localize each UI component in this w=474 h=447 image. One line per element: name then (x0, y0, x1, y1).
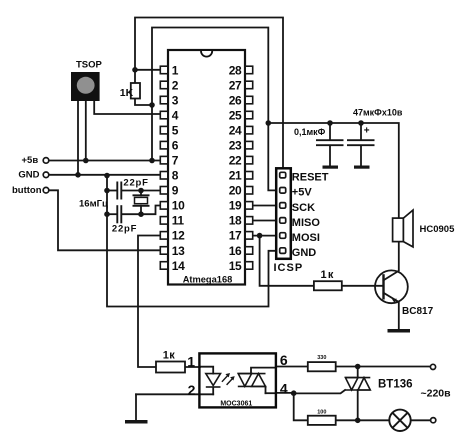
svg-text:17: 17 (229, 229, 242, 243)
svg-text:0,1мкФ: 0,1мкФ (294, 127, 326, 137)
svg-text:20: 20 (229, 184, 242, 198)
svg-text:6: 6 (280, 352, 288, 368)
svg-text:16мГц: 16мГц (79, 199, 108, 210)
svg-text:100: 100 (317, 410, 326, 416)
svg-text:BC817: BC817 (402, 306, 434, 317)
svg-text:+5V: +5V (292, 187, 313, 199)
svg-text:1K: 1K (120, 87, 134, 99)
svg-text:4: 4 (280, 380, 288, 396)
svg-text:22pF: 22pF (123, 178, 148, 189)
svg-text:4: 4 (172, 108, 179, 122)
svg-text:1к: 1к (321, 269, 335, 281)
svg-text:MOSI: MOSI (292, 232, 320, 244)
svg-text:19: 19 (229, 199, 242, 213)
svg-text:RESET: RESET (292, 172, 329, 184)
svg-text:5: 5 (172, 124, 179, 138)
svg-text:28: 28 (229, 63, 242, 77)
svg-text:12: 12 (172, 229, 185, 243)
svg-text:15: 15 (229, 259, 242, 273)
svg-text:25: 25 (229, 108, 242, 122)
svg-text:18: 18 (229, 214, 242, 228)
svg-text:23: 23 (229, 139, 242, 153)
svg-text:330: 330 (317, 355, 326, 361)
svg-text:TSOP: TSOP (76, 60, 103, 71)
svg-text:Atmega168: Atmega168 (183, 275, 233, 285)
svg-text:HC0905: HC0905 (420, 224, 456, 235)
svg-text:10: 10 (172, 199, 185, 213)
svg-text:27: 27 (229, 78, 242, 92)
svg-text:~220в: ~220в (421, 387, 452, 399)
svg-text:22pF: 22pF (112, 224, 137, 235)
svg-text:BT136: BT136 (378, 379, 413, 391)
svg-text:SCK: SCK (292, 202, 315, 214)
svg-text:9: 9 (172, 184, 179, 198)
svg-text:6: 6 (172, 139, 179, 153)
svg-text:1: 1 (172, 63, 179, 77)
svg-text:MOC3061: MOC3061 (220, 400, 252, 407)
svg-text:3: 3 (172, 93, 179, 107)
svg-text:GND: GND (18, 170, 39, 181)
svg-text:2: 2 (188, 382, 196, 398)
svg-text:11: 11 (172, 214, 185, 228)
svg-text:21: 21 (229, 169, 242, 183)
svg-text:1к: 1к (163, 350, 176, 362)
svg-text:8: 8 (172, 169, 179, 183)
svg-text:26: 26 (229, 93, 242, 107)
svg-text:MISO: MISO (292, 217, 321, 229)
svg-text:14: 14 (172, 259, 185, 273)
svg-text:button: button (12, 185, 42, 196)
svg-text:16: 16 (229, 244, 242, 258)
svg-text:2: 2 (172, 78, 179, 92)
svg-text:47мкФх10в: 47мкФх10в (353, 108, 403, 118)
svg-text:ICSP: ICSP (274, 262, 304, 274)
svg-text:24: 24 (229, 124, 242, 138)
svg-text:1: 1 (187, 354, 195, 370)
svg-text:GND: GND (292, 247, 317, 259)
svg-text:22: 22 (229, 154, 242, 168)
svg-text:13: 13 (172, 244, 185, 258)
svg-text:+: + (364, 126, 370, 137)
svg-text:7: 7 (172, 154, 179, 168)
svg-text:+5в: +5в (22, 155, 39, 166)
